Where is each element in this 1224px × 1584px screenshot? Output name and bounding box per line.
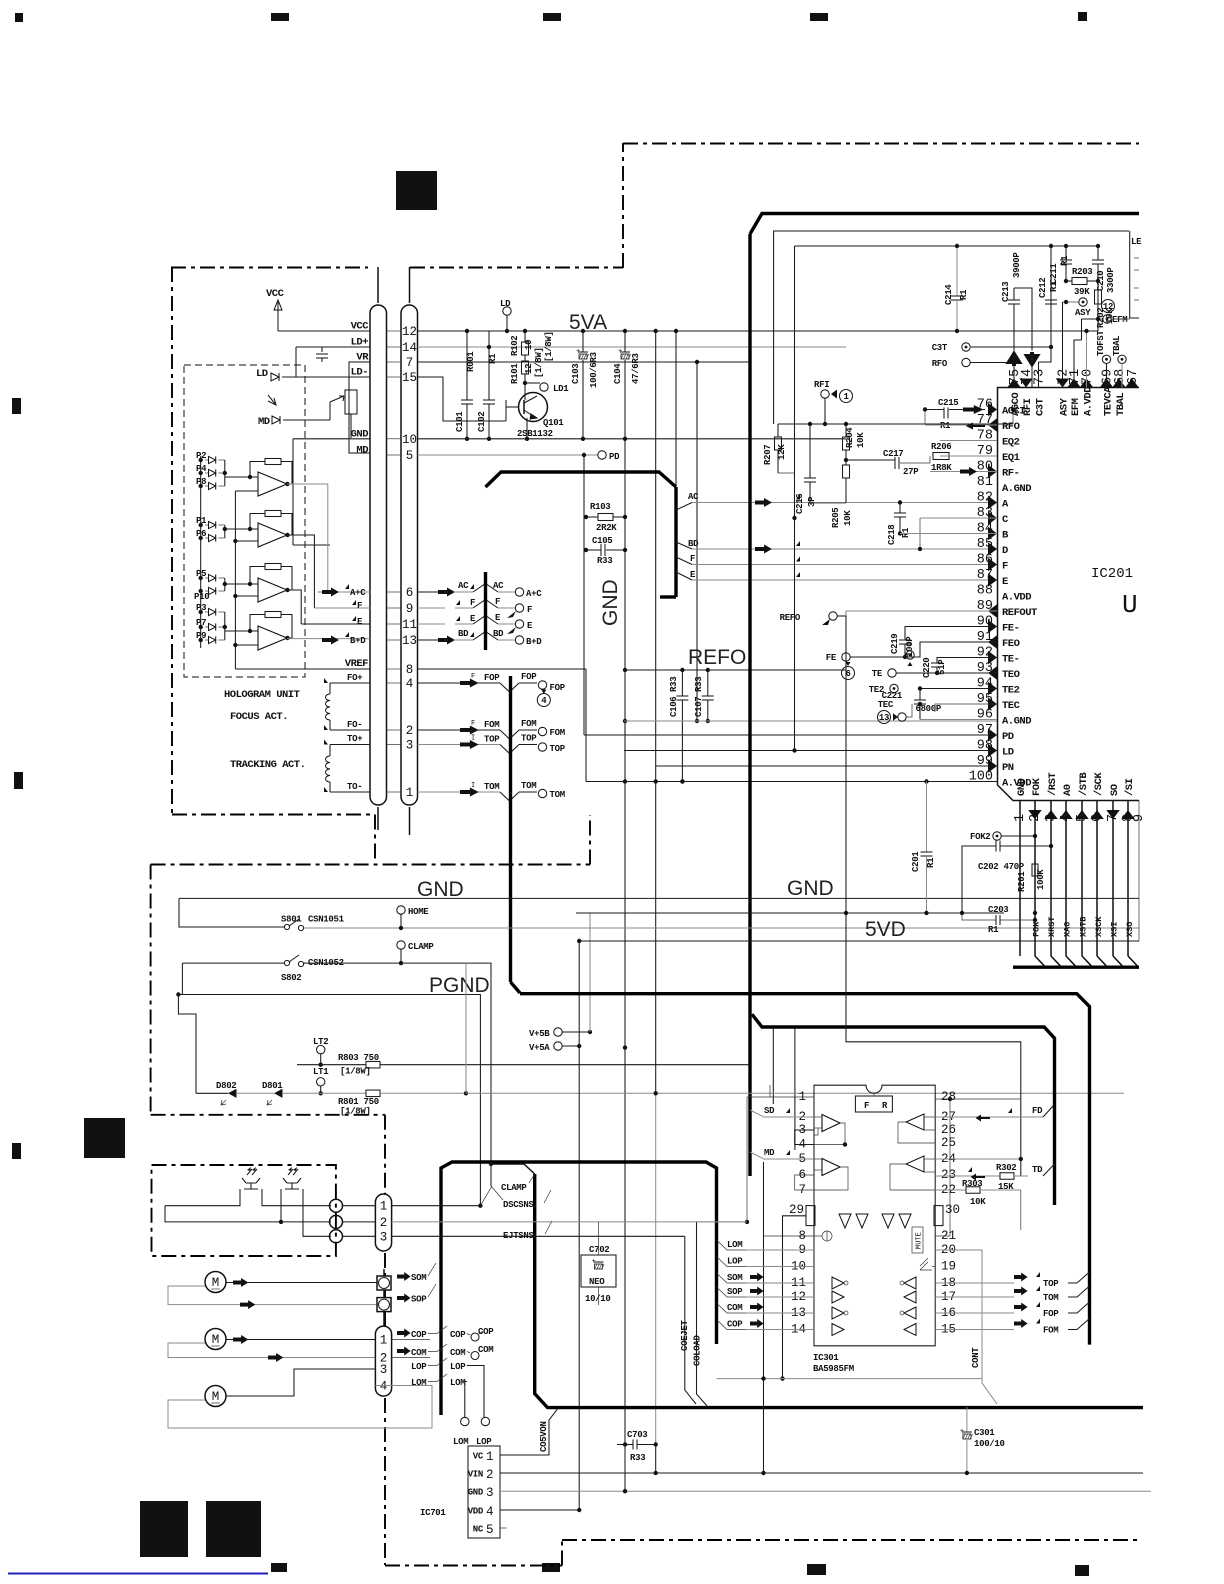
PD test point [582, 453, 586, 457]
svg-text:EJTSNS: EJTSNS [503, 1231, 535, 1241]
svg-text:XSCK: XSCK [1094, 916, 1104, 937]
connector circles [330, 1199, 343, 1212]
blue underline bottom-left [8, 1573, 268, 1575]
svg-text:LD: LD [256, 368, 268, 380]
svg-text:F: F [357, 601, 362, 611]
svg-text:COP: COP [478, 1327, 494, 1337]
wire vertical x586 dn [585, 669, 587, 782]
wire x626 to C703 [623, 1045, 627, 1049]
wire pin20 CONT [935, 1250, 997, 1404]
CLAMP test point [397, 941, 405, 949]
registration marks top [15, 13, 23, 22]
wire PGND left branch [178, 995, 196, 1094]
dash-dot border middle-left block [151, 864, 590, 866]
op-amp A1 [258, 472, 287, 496]
svg-text:LT1: LT1 [313, 1067, 329, 1077]
wire pin21 [935, 1099, 950, 1236]
svg-text:VCC: VCC [266, 288, 285, 300]
wire M2 to COP [226, 1339, 375, 1341]
svg-text:/RST: /RST [1047, 773, 1059, 796]
svg-text:EQ1: EQ1 [1002, 452, 1020, 464]
svg-text:LOM: LOM [727, 1240, 742, 1250]
svg-text:BD: BD [458, 629, 469, 639]
svg-text:R33: R33 [597, 556, 612, 566]
svg-text:R1: R1 [488, 353, 498, 364]
wire pin9 LOM [716, 1239, 718, 1241]
tracking actuator coil [329, 745, 331, 757]
svg-text:R102: R102 [510, 336, 520, 356]
svg-text:M: M [212, 1276, 220, 1290]
resistor R103 [586, 516, 598, 518]
serial control bus thick [1013, 966, 1139, 969]
svg-text:P10: P10 [194, 592, 209, 602]
svg-text:5: 5 [486, 1523, 494, 1537]
svg-text:AC: AC [493, 581, 504, 591]
motor M2 [205, 1329, 226, 1350]
svg-text:23: 23 [941, 1168, 956, 1182]
connector CN101 inter-tube wires [387, 330, 402, 332]
svg-text:LOP: LOP [727, 1257, 743, 1267]
svg-text:C214: C214 [944, 284, 954, 305]
IC301 right row wires TOP TOM FOP FOM [935, 1282, 1014, 1284]
svg-text:EFM: EFM [1070, 398, 1082, 416]
svg-text:R302: R302 [996, 1163, 1016, 1173]
resistor R303 10K [935, 1189, 966, 1191]
svg-text:FD: FD [1032, 1106, 1043, 1116]
capacitor C103 electrolytic [582, 331, 584, 352]
wire pin84 B [900, 533, 997, 535]
svg-text:C103: C103 [571, 364, 581, 384]
svg-text:4: 4 [486, 1505, 494, 1519]
row arrows A+C F E B+D left of connector [322, 588, 339, 597]
svg-text:/SI: /SI [1124, 778, 1136, 796]
wire pin29 down [783, 1216, 807, 1379]
svg-text:10K: 10K [856, 432, 866, 448]
svg-text:TE2: TE2 [1002, 685, 1020, 697]
focus actuator coil [329, 683, 331, 694]
svg-text:COM: COM [450, 1348, 465, 1358]
svg-text:TE: TE [872, 669, 883, 679]
svg-text:LE: LE [1131, 237, 1142, 247]
svg-text:R201: R201 [1017, 871, 1027, 892]
hologram unit dashed box [184, 365, 305, 677]
svg-text:19: 19 [941, 1260, 956, 1274]
wire pin8 external [764, 1235, 815, 1237]
svg-text:IC301: IC301 [813, 1353, 839, 1363]
svg-text:/STB: /STB [1078, 772, 1090, 796]
svg-text:2: 2 [406, 724, 414, 738]
svg-text:SOM: SOM [411, 1273, 426, 1283]
LD1 test point [523, 381, 527, 385]
svg-text:C219: C219 [890, 634, 900, 654]
capacitor C107 [707, 670, 709, 696]
wire row 3 TOP [418, 744, 501, 746]
svg-text:C212: C212 [1038, 278, 1048, 298]
wire GND row left [293, 438, 370, 440]
svg-text:2SB1132: 2SB1132 [517, 429, 553, 439]
svg-text:CO5VON: CO5VON [539, 1421, 549, 1452]
svg-text:TEC: TEC [1002, 700, 1021, 712]
svg-text:7: 7 [406, 356, 414, 370]
svg-text:FEO: FEO [1002, 638, 1020, 650]
svg-text:C215: C215 [938, 398, 958, 408]
dash-dot vertical bottom-left [384, 1115, 386, 1194]
wire vertical x655 [655, 331, 657, 1093]
svg-text:FOM: FOM [521, 719, 536, 729]
svg-text:10K: 10K [970, 1197, 986, 1207]
wire pin76 AGCI [963, 405, 983, 414]
wires IC701 pins [500, 1408, 559, 1455]
svg-text:VIN: VIN [468, 1470, 483, 1480]
svg-text:FOM: FOM [484, 720, 499, 730]
wire pin22 x1021 down [1020, 1190, 1022, 1230]
wire grey to x655 [464, 1091, 468, 1095]
wire amp1 to A+C row [287, 484, 328, 592]
svg-text:PD: PD [1002, 731, 1014, 743]
svg-text:FOCUS ACT.: FOCUS ACT. [230, 711, 288, 723]
label SOM [397, 1272, 411, 1281]
svg-text:TBAL: TBAL [1115, 393, 1127, 416]
wire 5VD rail [579, 940, 1139, 942]
svg-text:TOM: TOM [484, 782, 499, 792]
op-amp IC201 body [998, 388, 1140, 801]
wire VREF right [418, 668, 587, 670]
photodiode anode bus [200, 456, 202, 648]
svg-text:C3T: C3T [932, 343, 948, 353]
svg-text:3: 3 [406, 739, 414, 753]
wire pin4 dot [843, 1142, 847, 1146]
resistor R803 750 [297, 1064, 366, 1066]
wire pin94 TE2 [920, 688, 997, 690]
TOFST test point [1102, 355, 1110, 363]
svg-text:2: 2 [486, 1468, 494, 1482]
wire pin23 TD R302 [935, 1175, 1000, 1177]
TE2 test point [890, 684, 898, 692]
svg-text:10: 10 [524, 340, 534, 350]
svg-text:R101: R101 [510, 363, 520, 384]
svg-text:3300P: 3300P [1106, 267, 1116, 293]
svg-text:R001: R001 [466, 351, 476, 372]
loop pins 6-7 [795, 1175, 814, 1190]
svg-text:[1/8W]: [1/8W] [340, 1107, 371, 1117]
svg-text:VDD: VDD [468, 1507, 484, 1517]
edge connector box LE [1130, 238, 1139, 318]
wire row 1 TOM [418, 791, 501, 793]
wire pin24 [935, 1158, 1021, 1160]
svg-text:B+D: B+D [350, 636, 366, 646]
svg-text:A+C: A+C [350, 588, 366, 598]
capacitor C105 [586, 549, 601, 551]
svg-text:TOM: TOM [550, 790, 565, 800]
wire M1 return to SOP [168, 1286, 377, 1305]
svg-text:1: 1 [406, 786, 414, 800]
svg-text:C104: C104 [613, 363, 623, 384]
wire pin89 REFOUT [846, 610, 997, 612]
wire corner x1021 [846, 616, 1021, 1176]
svg-text:2: 2 [380, 1216, 388, 1230]
svg-text:HOME: HOME [408, 907, 429, 917]
svg-text:M: M [212, 1333, 220, 1347]
thick border top right [750, 214, 1139, 235]
registration marks bottom [807, 1564, 826, 1575]
svg-text:FOP: FOP [521, 672, 537, 682]
resistor R203 [1066, 280, 1072, 282]
svg-text:TRACKING ACT.: TRACKING ACT. [230, 759, 305, 771]
svg-text:15: 15 [402, 371, 417, 385]
svg-text:RFO: RFO [1002, 421, 1020, 433]
svg-text:73: 73 [1033, 369, 1048, 385]
resistor R206 [933, 453, 949, 460]
wire pin77 RFO [925, 424, 997, 426]
svg-text:FOK: FOK [1032, 921, 1042, 937]
svg-text:28: 28 [941, 1090, 956, 1104]
wire pin28 IC301 link [935, 1098, 1021, 1100]
svg-text:SO: SO [1109, 784, 1121, 796]
svg-text:R1: R1 [940, 421, 951, 431]
svg-text:AGCO: AGCO [1010, 393, 1022, 416]
svg-text:C702: C702 [589, 1245, 609, 1255]
phototransistor S1 [242, 1169, 260, 1189]
svg-text:BD: BD [688, 539, 699, 549]
thick bus to page edge [520, 994, 1090, 1345]
svg-text:E: E [357, 617, 363, 627]
svg-text:10/10: 10/10 [585, 1294, 611, 1304]
svg-text:CLAMP: CLAMP [501, 1183, 527, 1193]
wire GND rail return [179, 898, 285, 927]
svg-text:9: 9 [1132, 814, 1147, 822]
svg-text:LOP: LOP [450, 1362, 466, 1372]
svg-text:R1: R1 [1060, 255, 1070, 266]
capacitor C213 [1013, 304, 1015, 351]
connector SOP square [377, 1298, 391, 1312]
svg-text:[1/8W]: [1/8W] [340, 1067, 371, 1077]
test point TOP [538, 743, 546, 751]
svg-text:TO+: TO+ [347, 734, 362, 744]
resistor R202 [1095, 290, 1102, 304]
wire LD row to pin98 [624, 750, 997, 752]
wire amp2 to F row [287, 535, 314, 608]
svg-text:B+D: B+D [526, 637, 542, 647]
flag FO+ [324, 678, 336, 683]
svg-text:+: + [618, 348, 622, 356]
svg-text:A0: A0 [1062, 784, 1074, 796]
svg-text:10: 10 [402, 433, 417, 447]
svg-text:4: 4 [541, 696, 547, 706]
wires tube123 to right [392, 1205, 481, 1207]
resistor R204 [845, 424, 847, 437]
wire pin1 [770, 1085, 814, 1097]
svg-text:R207: R207 [763, 445, 773, 465]
svg-text:FOP: FOP [550, 683, 566, 693]
wire x466 vertical [465, 963, 467, 1093]
wire E to IC [676, 572, 692, 580]
wire x655 lower [655, 1093, 657, 1444]
capacitor C221 [919, 689, 921, 701]
svg-text:R303: R303 [962, 1179, 982, 1189]
svg-text:D: D [1002, 545, 1008, 557]
IC301 internal amp B [822, 1159, 840, 1176]
wire pin90 FE- [905, 627, 997, 641]
F R box [855, 1096, 892, 1112]
svg-text:R103: R103 [590, 502, 610, 512]
svg-text:TOM: TOM [1043, 1293, 1058, 1303]
svg-text:FE-: FE- [1002, 623, 1019, 635]
svg-text:S802: S802 [281, 973, 301, 983]
transistor Q101 2SB1132 [519, 393, 548, 422]
flag TO- [324, 787, 336, 792]
svg-text:COM: COM [411, 1348, 426, 1358]
svg-text:5VA: 5VA [569, 311, 607, 334]
svg-text:81: 81 [977, 475, 993, 490]
connector CN101 tube right [401, 305, 418, 805]
svg-text:C102: C102 [477, 412, 487, 432]
svg-text:REFO: REFO [688, 646, 746, 669]
resistor R801 750 [366, 1090, 380, 1097]
svg-text:EQ2: EQ2 [1002, 437, 1020, 449]
wire GND vertical x625 [624, 439, 626, 1445]
svg-text:1: 1 [380, 1200, 388, 1214]
svg-text:F: F [471, 673, 475, 681]
svg-text:D801: D801 [262, 1081, 283, 1091]
svg-text:AC: AC [458, 581, 469, 591]
svg-text:A.VDD: A.VDD [1083, 387, 1095, 416]
svg-text:100/6R3: 100/6R3 [589, 352, 599, 388]
svg-text:78: 78 [977, 429, 993, 444]
wire VR row left [349, 361, 370, 363]
svg-text:SD: SD [764, 1106, 775, 1116]
wire pin91 FEO [905, 642, 997, 657]
pin8 clock symbol [822, 1231, 832, 1241]
wires phototransistor rows [165, 1189, 240, 1206]
test point LOP [481, 1417, 489, 1425]
inner corner line 1 [774, 231, 1129, 424]
phototransistor S2 [283, 1169, 301, 1189]
wire x763 vertical [763, 1162, 765, 1473]
wire VREF row [235, 668, 370, 670]
svg-text:+: + [592, 1258, 596, 1266]
svg-text:C3T: C3T [1035, 398, 1047, 416]
svg-text:A+C: A+C [526, 589, 542, 599]
svg-text:9: 9 [406, 602, 414, 616]
IC301 internal amp A [822, 1115, 840, 1132]
svg-text:TEO: TEO [1002, 669, 1020, 681]
connector SOM square [377, 1276, 391, 1290]
svg-text:XSO: XSO [1125, 922, 1135, 937]
svg-text:1: 1 [486, 1450, 494, 1464]
wire SD feed [772, 1027, 774, 1104]
svg-text:+: + [960, 1428, 964, 1436]
svg-text:30: 30 [945, 1203, 960, 1217]
svg-text:27P: 27P [903, 467, 919, 477]
svg-text:PGND: PGND [429, 974, 490, 997]
svg-text:COM: COM [478, 1345, 493, 1355]
svg-text:13: 13 [879, 713, 889, 723]
test point F [515, 604, 523, 612]
thick bus bridge ACFE [486, 472, 677, 487]
svg-text:LOM: LOM [411, 1378, 426, 1388]
wires IC201 bottom pins vertical [1019, 801, 1021, 957]
svg-text:LD1: LD1 [553, 384, 569, 394]
wire pin92 TE- [937, 658, 997, 664]
svg-text:3: 3 [380, 1230, 388, 1244]
wire pin70 AVDD [1086, 331, 1088, 388]
wire row 2 FOM [418, 729, 501, 731]
svg-text:R1: R1 [988, 925, 999, 935]
svg-text:I: I [471, 782, 475, 790]
wire PD row to pin97 [584, 734, 997, 736]
wire GND10 row right [418, 438, 847, 440]
capacitor C216 [809, 424, 811, 478]
svg-text:TEVCA: TEVCA [1103, 386, 1115, 416]
pin19 symbol [920, 1258, 932, 1270]
wire BD to IC [676, 542, 692, 549]
svg-text:E: E [495, 613, 501, 623]
wire RFI node [824, 398, 826, 424]
svg-text:IC201: IC201 [1091, 566, 1133, 582]
svg-text:39K: 39K [1074, 287, 1090, 297]
svg-text:LOM: LOM [453, 1437, 468, 1447]
wire V+5A vertical x579 [578, 941, 580, 1509]
flag FO- [324, 725, 336, 730]
wire AVDD row to pin100 [586, 781, 997, 783]
svg-text:MD: MD [764, 1148, 775, 1158]
light arrow [268, 395, 276, 405]
svg-text:5: 5 [406, 449, 414, 463]
C3T test point [962, 343, 970, 351]
registration marks left [12, 398, 21, 414]
svg-text:12K: 12K [777, 444, 787, 460]
op-amp A3 [258, 578, 287, 602]
svg-text:TOP: TOP [550, 744, 566, 754]
svg-text:TE-: TE- [1002, 654, 1019, 666]
svg-text:100/10: 100/10 [974, 1439, 1005, 1449]
wire VR row right [418, 361, 751, 363]
EFM test point [1103, 315, 1111, 323]
inverting input bus to VREF [234, 491, 236, 669]
motor driver IC301 body [814, 1085, 935, 1346]
svg-text:R203: R203 [1072, 267, 1092, 277]
capacitor C301 [966, 1407, 968, 1432]
svg-text:6: 6 [406, 586, 414, 600]
svg-text:I: I [471, 735, 475, 743]
wire pin95 TEC [935, 704, 997, 712]
svg-text:C106: C106 [669, 697, 679, 717]
variable resistor VR pot [345, 390, 357, 414]
capacitor C219 [899, 639, 911, 641]
wire VR drop x697 [696, 362, 698, 721]
svg-text:FOP: FOP [484, 673, 500, 683]
svg-text:F: F [1002, 561, 1008, 573]
thick bus branch x750 to right [752, 1014, 1055, 1205]
svg-text:VREF: VREF [345, 658, 368, 670]
capacitor C211 [1065, 246, 1067, 260]
svg-text:C201: C201 [911, 851, 921, 872]
capacitor C201 [926, 782, 928, 853]
svg-text:47/6R3: 47/6R3 [631, 353, 641, 384]
row COP [397, 1329, 411, 1338]
svg-text:COM: COM [727, 1303, 742, 1313]
svg-text:F: F [527, 605, 532, 615]
test point FOP [538, 681, 546, 689]
TE test point [888, 669, 896, 677]
svg-text:COP: COP [450, 1330, 466, 1340]
svg-text:88: 88 [977, 584, 993, 599]
dash-dot border top-right block [622, 143, 624, 268]
IC301 internal inverters [839, 1214, 851, 1228]
svg-text:PD: PD [609, 452, 620, 462]
svg-text:E: E [1002, 576, 1008, 588]
thick bus vertical A-E [484, 572, 487, 650]
